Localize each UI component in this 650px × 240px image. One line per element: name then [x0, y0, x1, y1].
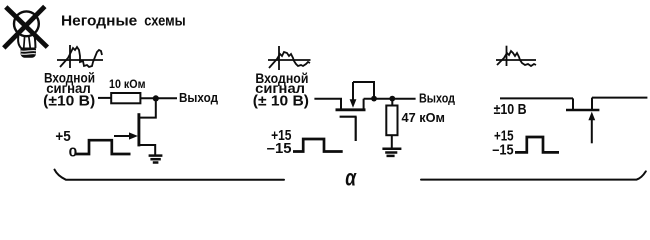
- transistor Q3 gate arrow (up into channel): [588, 112, 595, 144]
- circuit 1: input waveform squiggle with axes: [57, 45, 103, 68]
- brace under figure (right segment): [421, 171, 646, 179]
- ground (circuit 1): [149, 156, 163, 163]
- svg-text:(±10 В): (±10 В): [43, 93, 95, 110]
- circuit 2: label Входной сигнал (± 10 В): [253, 70, 309, 110]
- transistor Q3 source lead down: [572, 98, 574, 110]
- circuit 3: input wire: [500, 97, 573, 99]
- circuit 2: control pulse +15/-15 waveform: [293, 139, 343, 152]
- transistor Q3 channel bar: [566, 109, 599, 112]
- ground (circuit 2): [382, 149, 401, 156]
- svg-text:10 кОм: 10 кОм: [109, 77, 146, 91]
- circuit 2: input wire to transistor source: [314, 98, 342, 100]
- transistor Q2 channel bar: [336, 108, 366, 111]
- circuit 2: input waveform squiggle with axes: [268, 46, 311, 70]
- title: Негодные схемы: [61, 13, 186, 30]
- transistor Q2 source lead: [340, 99, 342, 110]
- circuit 1: wire from source to resistor: [98, 97, 111, 99]
- wire: substrate loop to output node: [353, 82, 374, 99]
- svg-text:+5: +5: [55, 128, 70, 145]
- svg-text:–15: –15: [492, 143, 513, 159]
- resistor 47k lead to ground: [391, 135, 393, 148]
- circuit 1: control pulse +5/0 waveform: [75, 140, 131, 154]
- svg-text:Негодные: Негодные: [61, 13, 137, 30]
- circuit 1: label Входной сигнал (±10 В): [43, 69, 95, 109]
- svg-text:Выход: Выход: [419, 90, 456, 105]
- svg-text:(± 10 В): (± 10 В): [253, 93, 309, 110]
- resistor 47k lead from node: [391, 99, 393, 106]
- brace under figure (left segment): [55, 170, 285, 180]
- resistor 47k box: [386, 106, 397, 136]
- circuit 1: node junction dot: [153, 95, 159, 101]
- circuit 3: control pulse +15/-15 waveform: [515, 137, 559, 152]
- svg-text:схемы: схемы: [144, 13, 186, 30]
- transistor Q2 drain lead up: [363, 99, 365, 110]
- svg-text:Выход: Выход: [179, 90, 219, 105]
- crossed-out bulb icon: [4, 6, 48, 57]
- transistor Q2 substrate arrow (down onto channel): [350, 82, 357, 108]
- transistor Q2 gate lead down: [355, 117, 357, 141]
- transistor Q2 gate plate: [340, 116, 357, 118]
- svg-text:0: 0: [69, 146, 78, 160]
- circuit 1: wire resistor to output node: [140, 97, 177, 99]
- wire: drain to output: [364, 98, 416, 100]
- node dot (substrate tie): [371, 96, 377, 102]
- transistor Q1 source lead to ground: [139, 145, 156, 155]
- transistor Q3 drain lead up: [591, 98, 593, 110]
- svg-text:±10 В: ±10 В: [494, 102, 527, 118]
- svg-text:–15: –15: [267, 141, 292, 157]
- node dot (resistor tap): [389, 96, 395, 102]
- transistor Q1 channel bar: [137, 113, 140, 146]
- svg-text:α: α: [345, 164, 357, 188]
- circuit 3: input waveform squiggle with axes: [496, 46, 536, 66]
- svg-text:47 кОм: 47 кОм: [402, 110, 446, 125]
- circuit 1: resistor 10k box: [111, 93, 140, 103]
- circuit 1: wire node down to transistor drain: [139, 98, 156, 117]
- circuit 3: output wire: [592, 97, 647, 99]
- transistor Q1 gate arrow: [114, 132, 138, 139]
